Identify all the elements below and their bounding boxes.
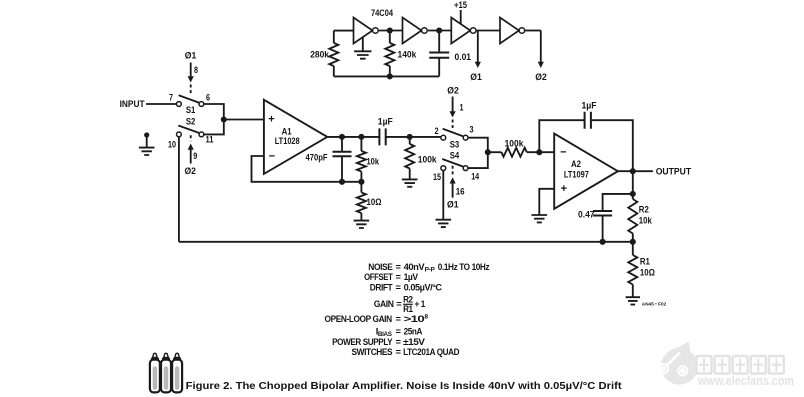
- +15 supply: [460, 10, 462, 24]
- wire 1uF to S3 pin 2: [386, 136, 441, 138]
- svg-text:100k: 100k: [505, 137, 525, 148]
- node 140k top: [387, 27, 393, 33]
- svg-text:10Ω: 10Ω: [367, 196, 382, 207]
- node phi2 output: [525, 30, 541, 32]
- svg-text:S1: S1: [186, 104, 196, 115]
- resistor 280k: [333, 31, 335, 43]
- resistor 10k (A1 feedback): [360, 137, 362, 151]
- node 10k top: [358, 134, 364, 140]
- svg-text:S3: S3: [450, 139, 460, 150]
- svg-text:1µF: 1µF: [378, 116, 393, 127]
- wire S4 pin 14 to node: [468, 152, 488, 168]
- wire oscillator input net: [334, 30, 354, 32]
- wire oscillator bottom rail: [334, 75, 439, 77]
- svg-text:>10: >10: [404, 314, 425, 324]
- svg-text:S2: S2: [186, 115, 196, 126]
- wire S3 pin 3 to node: [468, 138, 488, 153]
- svg-text:www.elecfans.com: www.elecfans.com: [697, 374, 794, 388]
- node S3/S4 common: [485, 149, 491, 155]
- svg-text:2: 2: [435, 125, 439, 136]
- node A1 + input: [221, 116, 227, 122]
- input ground reference: [144, 132, 149, 137]
- ground (R1): [626, 297, 640, 304]
- resistor R2 10k: [628, 199, 637, 234]
- wire output down to R2: [632, 171, 634, 199]
- inverter U1C 74C04: [451, 18, 470, 44]
- svg-text:16: 16: [456, 185, 465, 196]
- svg-text:Figure 2. The Chopped Bipolar: Figure 2. The Chopped Bipolar Amplifier.…: [186, 381, 623, 392]
- svg-text:Ø1: Ø1: [447, 199, 459, 210]
- svg-text:9: 9: [193, 150, 197, 161]
- battery icon: [150, 360, 160, 393]
- control phi1 pin 16 of S4: [452, 166, 454, 176]
- node phi1 output: [477, 31, 479, 63]
- wire A2 + to ground: [539, 189, 554, 215]
- node 470pF top: [339, 134, 345, 140]
- svg-text:+: +: [268, 113, 274, 125]
- svg-text:GAIN: GAIN: [374, 299, 394, 309]
- svg-text:AN45 • F02: AN45 • F02: [642, 302, 667, 308]
- ground (U1A): [362, 38, 364, 51]
- inverter U1B 74C04: [403, 18, 422, 44]
- svg-text:LTC201A QUAD: LTC201A QUAD: [403, 347, 460, 357]
- svg-text:R2: R2: [639, 204, 649, 215]
- switch S1: [177, 102, 182, 107]
- watermark logo: [661, 342, 698, 385]
- svg-text:R1: R1: [640, 256, 650, 267]
- svg-text:DRIFT: DRIFT: [370, 282, 393, 292]
- capacitor 0.47: [603, 194, 633, 211]
- svg-text:0.47: 0.47: [578, 209, 595, 220]
- svg-text:+ 1: + 1: [415, 299, 426, 309]
- svg-text:±15V: ±15V: [403, 337, 426, 347]
- svg-text:40nV: 40nV: [404, 262, 426, 272]
- wire S2 pin 11 to A1 + node: [204, 120, 224, 135]
- node 470pF bottom: [339, 179, 345, 185]
- svg-text:280k: 280k: [310, 49, 330, 60]
- wire node to A1 +: [224, 119, 264, 121]
- svg-text:LT1097: LT1097: [564, 169, 589, 180]
- wire S2 pin 10 to feedback rail: [178, 137, 180, 242]
- node 10k bottom / 10ohm top: [358, 179, 364, 185]
- wire A2 feedback loop: [539, 120, 584, 152]
- ground (10ohm): [354, 221, 370, 228]
- svg-text:Ø1: Ø1: [470, 71, 482, 82]
- svg-text:INPUT: INPUT: [120, 98, 145, 109]
- svg-text:15: 15: [433, 171, 441, 182]
- svg-text:R2: R2: [403, 294, 413, 304]
- svg-text:P-P: P-P: [425, 267, 435, 274]
- node 0.47 tap: [630, 191, 636, 197]
- svg-text:140k: 140k: [398, 49, 418, 60]
- wire INPUT to S1 pin 7: [146, 103, 176, 105]
- capacitor 0.01: [438, 31, 440, 53]
- svg-text:Ø1: Ø1: [185, 50, 197, 61]
- node 100k shunt top: [407, 134, 413, 140]
- svg-text:1: 1: [460, 102, 464, 113]
- ground (100k shunt): [402, 179, 418, 186]
- wire A2 output: [618, 170, 653, 172]
- svg-text:8: 8: [194, 64, 198, 75]
- resistor 10ohm: [360, 182, 362, 193]
- svg-text:0.05µV/°C: 0.05µV/°C: [404, 282, 443, 292]
- inverter U1D 74C04: [500, 18, 519, 44]
- svg-text:LT1028: LT1028: [275, 135, 300, 146]
- svg-text:POWER SUPPLY: POWER SUPPLY: [332, 337, 393, 347]
- svg-text:0.01: 0.01: [455, 51, 472, 62]
- op-amp A1 LT1028: [264, 100, 327, 174]
- svg-text:25nA: 25nA: [404, 327, 423, 337]
- svg-text:14: 14: [471, 171, 480, 182]
- svg-text:10k: 10k: [367, 155, 380, 166]
- wire S1 pin 6 to A1 + node: [204, 104, 224, 120]
- feedback rail wire (divider to S2): [179, 241, 633, 243]
- wire U1A out to U1B in: [379, 30, 403, 32]
- svg-text:Ø2: Ø2: [447, 85, 459, 96]
- svg-text:NOISE: NOISE: [368, 262, 392, 272]
- resistor 100k shunt: [409, 137, 411, 144]
- svg-text:6: 6: [206, 91, 210, 102]
- svg-text:+15: +15: [454, 0, 467, 10]
- svg-text:OFFSET: OFFSET: [364, 272, 393, 282]
- svg-text:3: 3: [470, 123, 474, 134]
- svg-text:74C04: 74C04: [371, 7, 394, 18]
- capacitor 470pF: [341, 137, 343, 151]
- svg-text:470pF: 470pF: [306, 151, 328, 162]
- node A2 - input: [536, 149, 542, 155]
- svg-text:10Ω: 10Ω: [640, 267, 655, 278]
- svg-text:Ø2: Ø2: [535, 71, 547, 82]
- svg-text:−: −: [269, 150, 275, 162]
- svg-text:−: −: [560, 146, 566, 158]
- svg-text:10: 10: [168, 139, 176, 150]
- svg-text:S4: S4: [450, 150, 460, 161]
- svg-text:11: 11: [206, 134, 214, 145]
- junction bottom rail / 140k: [387, 73, 393, 79]
- inverter U1A 74C04: [354, 18, 373, 44]
- svg-text:Ø2: Ø2: [184, 165, 196, 176]
- resistor 100k (series to A2): [488, 151, 502, 153]
- node A2 output: [630, 168, 636, 174]
- ground (A2 +): [532, 215, 548, 222]
- resistor R1 10ohm: [632, 242, 634, 255]
- wire U1C out to U1D in: [477, 30, 500, 32]
- svg-text:OPEN-LOOP GAIN: OPEN-LOOP GAIN: [325, 314, 393, 324]
- ground (S4 pin 15): [442, 171, 444, 220]
- control phi2 pin 9 of S2: [190, 135, 192, 141]
- svg-text:R1: R1: [403, 304, 413, 314]
- svg-text:0.1Hz TO 10Hz: 0.1Hz TO 10Hz: [438, 262, 490, 272]
- node 0.01 cap top: [436, 27, 442, 33]
- node 0.47 bottom: [600, 239, 606, 245]
- resistor 140k: [389, 31, 391, 44]
- op-amp A2 LT1097: [554, 134, 618, 209]
- svg-text:10k: 10k: [639, 215, 653, 226]
- svg-text:1µF: 1µF: [582, 100, 597, 111]
- svg-text:+: +: [561, 183, 567, 195]
- watermark text: [697, 356, 712, 374]
- svg-text:100k: 100k: [418, 153, 438, 164]
- node R2/R1 junction: [630, 239, 636, 245]
- svg-text:1µV: 1µV: [404, 272, 419, 282]
- wire A1 output: [327, 136, 379, 138]
- wire U1B out to U1C in: [428, 30, 452, 32]
- svg-text:OUTPUT: OUTPUT: [656, 165, 692, 176]
- svg-text:A2: A2: [571, 158, 581, 169]
- svg-text:7: 7: [169, 91, 173, 102]
- svg-text:SWITCHES: SWITCHES: [352, 347, 393, 357]
- wire A1 - feedback loop: [252, 156, 362, 182]
